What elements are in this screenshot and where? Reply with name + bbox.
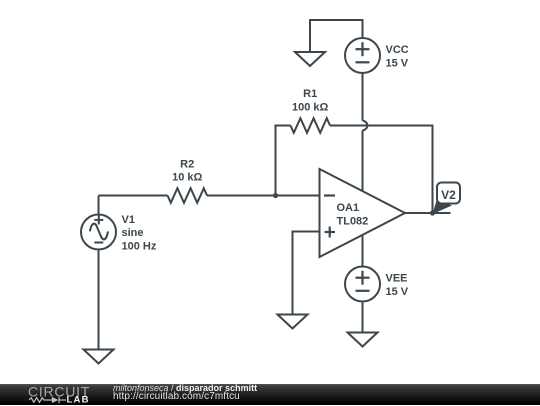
node: inverting input junction [273, 193, 278, 198]
wire: R1 left lead down to inverting node [276, 126, 291, 196]
voltage source V1 [81, 215, 116, 250]
label R2 value [172, 158, 202, 183]
svg-text:100 Hz: 100 Hz [122, 240, 157, 252]
wire: VEE bottom to ground [362, 302, 364, 333]
svg-text:VEE: VEE [386, 273, 408, 285]
wire: top-left ground to VCC top [310, 20, 363, 52]
wire: non-inverting input to ground [293, 232, 320, 315]
svg-text:R2: R2 [180, 158, 194, 170]
voltage source VEE [345, 267, 380, 302]
wire: op-amp output [405, 212, 451, 214]
resistor R2 [168, 188, 208, 203]
label R1 value [292, 88, 329, 114]
svg-text:15 V: 15 V [386, 58, 409, 70]
CircuitLab logo [0, 384, 110, 406]
svg-text:R1: R1 [303, 88, 317, 100]
svg-text:TL082: TL082 [337, 216, 369, 228]
svg-text:100 kΩ: 100 kΩ [292, 102, 329, 114]
footer attribution line 1 [113, 383, 257, 393]
svg-text:sine: sine [122, 227, 144, 239]
wire: R1 right lead to output node [330, 126, 433, 214]
ground (VEE) [348, 333, 378, 347]
label V2 flag text [441, 188, 456, 202]
op-amp inverting input mark [324, 194, 335, 196]
resistor R1 [291, 118, 331, 133]
flag V2 [433, 183, 461, 215]
wire: VCC bottom to op-amp V+ pin (with hop over R1 wire) [363, 73, 368, 191]
svg-text:LAB: LAB [67, 395, 90, 406]
wire: op-amp V- pin to VEE [362, 235, 364, 267]
ground (non-inverting input) [278, 315, 308, 329]
svg-text:V2: V2 [441, 188, 456, 202]
footer bar [0, 384, 540, 405]
svg-text:V1: V1 [122, 214, 135, 226]
svg-text:10 kΩ: 10 kΩ [172, 172, 202, 184]
wire: riser to V1 top [98, 196, 100, 215]
voltage source VCC [345, 38, 380, 73]
label OA1 part [337, 202, 369, 228]
label VEE value [386, 273, 409, 299]
ground (V1) [84, 350, 114, 364]
svg-text:VCC: VCC [386, 44, 409, 56]
node: output junction [430, 210, 435, 215]
label V1 value [122, 214, 157, 252]
svg-text:15 V: 15 V [386, 286, 409, 298]
footer attribution line 2 [113, 392, 240, 402]
svg-text:OA1: OA1 [337, 202, 360, 214]
op-amp OA1 triangle [320, 169, 406, 257]
wire: V1 bottom to ground [98, 250, 100, 350]
wire: V1 top / R2 / op-amp inverting input [99, 195, 320, 197]
ground (top left, VCC net) [295, 52, 325, 66]
op-amp non-inverting input mark [325, 227, 336, 238]
label VCC value [386, 44, 409, 70]
